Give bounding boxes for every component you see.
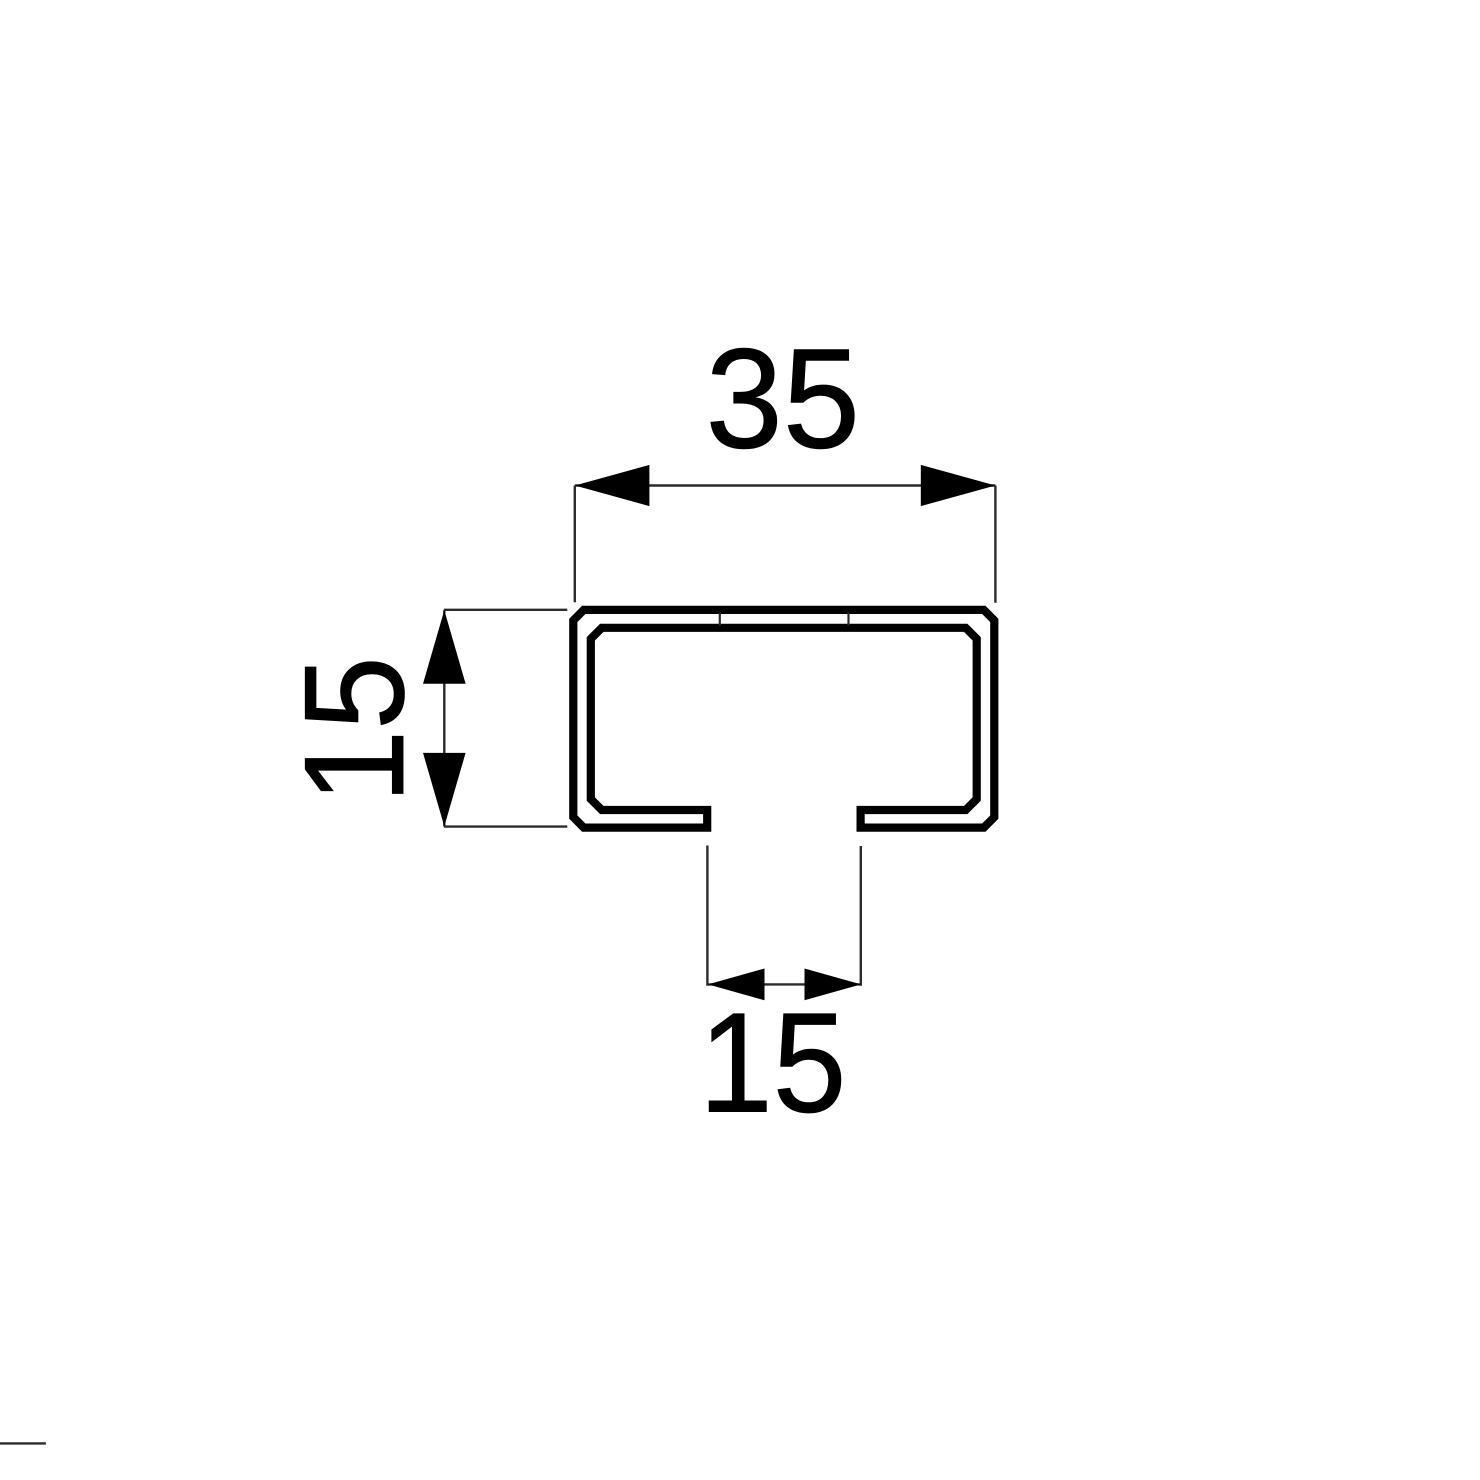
svg-text:35: 35 [706, 319, 860, 478]
svg-text:15: 15 [275, 656, 434, 803]
svg-text:15: 15 [699, 984, 846, 1143]
